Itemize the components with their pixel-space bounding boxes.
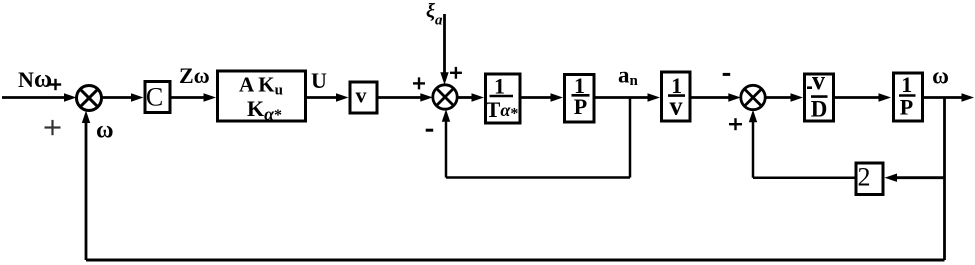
- label plus before S2: [413, 77, 425, 89]
- svg-text:v: v: [356, 83, 367, 108]
- svg-text:2: 2: [858, 162, 871, 191]
- wire left feedback up: [82, 111, 90, 261]
- block 1/v: [662, 72, 691, 121]
- svg-text:a: a: [435, 13, 443, 29]
- svg-text:Nω: Nω: [18, 66, 52, 93]
- wire AKu to v: [307, 93, 349, 101]
- summing junction S1: [77, 86, 102, 111]
- wire S3 to vD: [765, 93, 803, 101]
- label minus below S2: [426, 129, 434, 132]
- label Zw: [179, 63, 210, 88]
- summing junction S3: [741, 85, 765, 109]
- wire xi_a input: [440, 14, 448, 85]
- svg-text:1: 1: [901, 72, 912, 97]
- svg-text:D: D: [811, 97, 828, 122]
- block 1/P first: [565, 73, 595, 122]
- label a_n: [618, 63, 639, 90]
- block 1/P second: [894, 72, 923, 121]
- svg-text:ω: ω: [96, 118, 114, 144]
- block -v/D: [805, 66, 834, 122]
- label U: [311, 68, 327, 93]
- wire 1/v to S3: [690, 93, 741, 101]
- label plus top S2: [450, 67, 462, 79]
- block AKu/Ka*: [218, 71, 306, 124]
- svg-text:Zω: Zω: [179, 63, 210, 88]
- svg-text:ω: ω: [932, 64, 949, 89]
- wire C to AKu block: [172, 93, 217, 101]
- block 1/Ta*: [486, 74, 521, 124]
- wire 1/Ta to 1/P: [522, 93, 564, 101]
- block C: [145, 82, 170, 113]
- label plus after Nw: [50, 79, 61, 90]
- svg-text:P: P: [900, 95, 913, 120]
- wire S2 to 1/Ta: [457, 93, 484, 101]
- wire bottom feedback: [86, 259, 945, 262]
- block v: [350, 82, 377, 113]
- svg-text:A Ku: A Ku: [239, 73, 283, 99]
- label minus before S3: [723, 73, 731, 76]
- node an branch: [629, 98, 632, 178]
- svg-text:Tα*: Tα*: [486, 97, 519, 123]
- wire S1 to C: [102, 93, 144, 101]
- label Nw: [18, 66, 52, 93]
- wire to block 2: [885, 174, 945, 182]
- svg-text:ξ: ξ: [426, 0, 435, 22]
- label plus below S3: [729, 118, 742, 130]
- wire v to S2: [379, 93, 433, 101]
- wire output: [924, 93, 974, 101]
- label omega left feedback: [96, 118, 114, 144]
- wire output down branch: [943, 98, 946, 261]
- svg-text:v: v: [812, 66, 825, 95]
- svg-text:Kα*: Kα*: [247, 96, 282, 124]
- svg-text:U: U: [311, 68, 327, 93]
- wire input Nw: [2, 93, 77, 101]
- label plus S1 lower-left: [45, 120, 61, 135]
- wire block2 to S3: [749, 110, 855, 178]
- svg-text:C: C: [146, 83, 163, 112]
- wire feedback an to S2: [442, 109, 630, 177]
- label omega output: [932, 64, 949, 89]
- summing junction S2: [433, 85, 457, 109]
- wire 1/P to 1/v: [594, 93, 660, 101]
- svg-text:an: an: [618, 63, 639, 90]
- wire vD to 1/P2: [835, 93, 891, 101]
- label xi_a: [426, 0, 443, 29]
- svg-text:P: P: [574, 94, 587, 119]
- block 2: [856, 162, 883, 194]
